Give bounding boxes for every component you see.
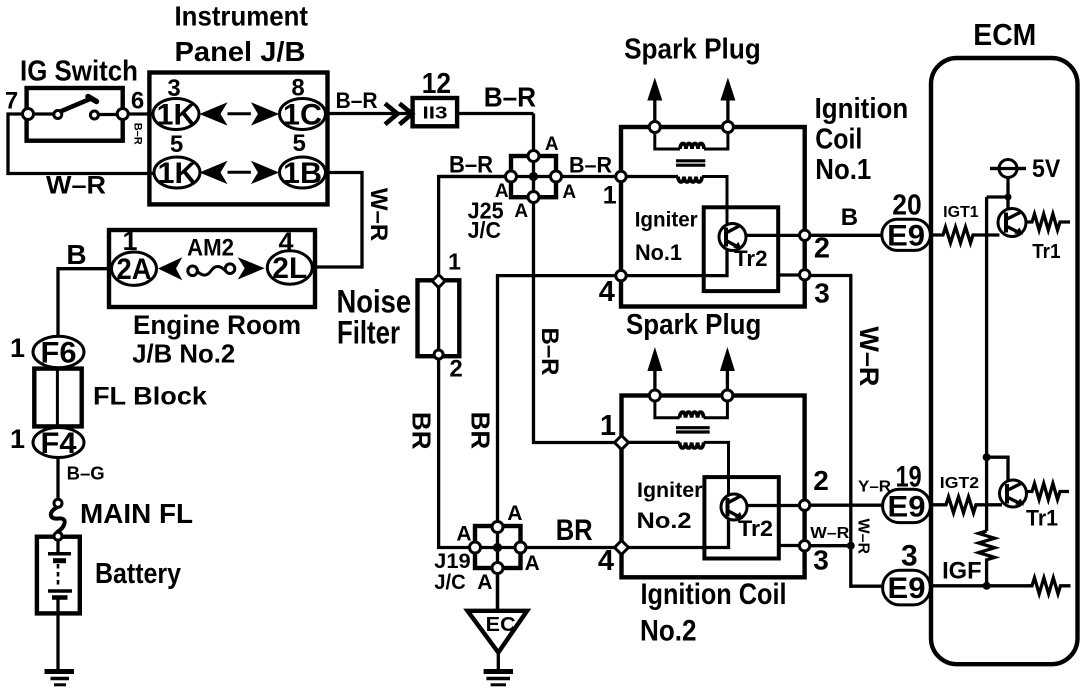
svg-text:W–R: W–R <box>854 326 884 386</box>
svg-text:No.1: No.1 <box>815 154 871 186</box>
svg-text:B: B <box>841 204 858 231</box>
svg-text:Spark Plug: Spark Plug <box>626 309 761 341</box>
svg-text:7: 7 <box>5 88 18 115</box>
svg-text:Igniter: Igniter <box>635 209 698 232</box>
svg-text:2: 2 <box>449 356 462 383</box>
svg-text:II3: II3 <box>423 103 448 123</box>
svg-text:E9: E9 <box>887 220 925 253</box>
svg-text:4: 4 <box>599 276 615 308</box>
svg-text:W–R: W–R <box>810 525 849 542</box>
svg-text:5V: 5V <box>1032 155 1061 183</box>
svg-text:1K: 1K <box>157 99 196 132</box>
svg-text:W–R: W–R <box>46 172 106 200</box>
svg-text:3: 3 <box>814 278 830 309</box>
svg-text:5: 5 <box>293 130 306 157</box>
svg-text:Instrument: Instrument <box>175 0 309 31</box>
svg-text:5: 5 <box>170 131 183 158</box>
svg-text:A: A <box>525 552 540 575</box>
svg-text:J/C: J/C <box>468 217 501 243</box>
svg-text:8: 8 <box>291 75 304 102</box>
svg-text:A: A <box>545 134 559 155</box>
svg-text:J/B No.2: J/B No.2 <box>132 339 235 369</box>
svg-text:2L: 2L <box>272 252 307 285</box>
svg-text:1: 1 <box>600 410 616 442</box>
svg-text:F6: F6 <box>41 337 77 370</box>
svg-text:B–R: B–R <box>569 153 612 178</box>
svg-text:1K: 1K <box>158 157 197 190</box>
svg-text:BR: BR <box>466 412 496 450</box>
svg-text:E9: E9 <box>888 491 926 524</box>
svg-text:No.2: No.2 <box>640 615 697 648</box>
svg-text:2: 2 <box>813 465 829 496</box>
svg-text:3: 3 <box>901 540 918 573</box>
svg-text:Engine Room: Engine Room <box>133 310 301 340</box>
svg-text:6: 6 <box>131 88 144 115</box>
svg-text:2A: 2A <box>117 253 152 286</box>
svg-text:19: 19 <box>896 461 922 494</box>
svg-text:2: 2 <box>814 233 830 265</box>
svg-text:W–R: W–R <box>855 519 872 555</box>
svg-text:B–R: B–R <box>484 82 536 113</box>
svg-text:1: 1 <box>10 424 25 454</box>
svg-text:Spark Plug: Spark Plug <box>624 34 761 66</box>
svg-text:B–R: B–R <box>132 123 144 145</box>
svg-text:Filter: Filter <box>337 314 400 350</box>
svg-text:20: 20 <box>892 190 921 222</box>
svg-text:Tr1: Tr1 <box>1026 506 1058 531</box>
svg-text:Coil: Coil <box>815 124 862 156</box>
svg-text:ECM: ECM <box>973 17 1036 52</box>
svg-text:B–R: B–R <box>536 327 563 375</box>
svg-text:Igniter: Igniter <box>637 479 703 502</box>
svg-text:1: 1 <box>122 226 137 256</box>
svg-text:Tr2: Tr2 <box>738 516 773 541</box>
svg-text:No.2: No.2 <box>637 508 692 533</box>
svg-text:A: A <box>507 502 522 525</box>
svg-text:E9: E9 <box>888 572 926 605</box>
svg-text:Panel J/B: Panel J/B <box>175 36 306 67</box>
svg-text:1B: 1B <box>283 157 322 190</box>
svg-text:J/C: J/C <box>434 571 466 594</box>
svg-text:1: 1 <box>10 333 25 363</box>
svg-text:A: A <box>477 571 492 594</box>
svg-text:IG Switch: IG Switch <box>20 56 138 88</box>
svg-text:B: B <box>66 239 86 270</box>
svg-text:1C: 1C <box>283 99 322 132</box>
svg-text:Ignition: Ignition <box>815 93 909 125</box>
svg-text:W–R: W–R <box>365 188 392 241</box>
svg-text:BR: BR <box>407 412 437 450</box>
svg-text:1: 1 <box>603 182 617 210</box>
svg-text:EC: EC <box>486 614 516 636</box>
svg-text:4: 4 <box>598 545 614 577</box>
svg-text:No.1: No.1 <box>635 240 682 265</box>
svg-text:F4: F4 <box>41 427 77 460</box>
svg-text:B–G: B–G <box>67 464 105 484</box>
svg-text:12: 12 <box>422 68 451 100</box>
svg-text:FL Block: FL Block <box>93 383 207 411</box>
svg-text:BR: BR <box>556 514 593 547</box>
svg-text:IGF: IGF <box>942 558 982 585</box>
svg-text:B–R: B–R <box>449 152 493 179</box>
svg-text:B–R: B–R <box>336 88 378 113</box>
svg-text:Battery: Battery <box>95 558 181 590</box>
svg-text:3: 3 <box>813 545 829 576</box>
svg-text:IGT1: IGT1 <box>943 204 979 221</box>
svg-text:A: A <box>562 182 576 203</box>
svg-text:1: 1 <box>448 249 461 275</box>
svg-text:AM2: AM2 <box>187 235 234 262</box>
svg-text:MAIN FL: MAIN FL <box>80 498 193 529</box>
svg-text:A: A <box>514 201 528 222</box>
svg-text:Ignition Coil: Ignition Coil <box>641 578 787 611</box>
svg-text:IGT2: IGT2 <box>940 475 979 492</box>
svg-text:A: A <box>456 523 471 546</box>
svg-text:Tr1: Tr1 <box>1032 241 1060 263</box>
svg-text:Tr2: Tr2 <box>734 246 768 271</box>
svg-text:J19: J19 <box>434 550 471 573</box>
svg-text:Y–R: Y–R <box>858 479 891 496</box>
